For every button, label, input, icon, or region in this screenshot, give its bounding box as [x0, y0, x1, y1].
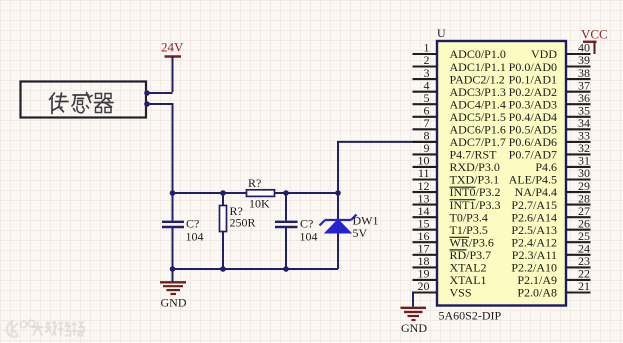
svg-text:VCC: VCC [581, 27, 608, 42]
wire: R2 250R bottom lead [222, 232, 224, 270]
svg-text:GND: GND [401, 321, 427, 335]
svg-text:21: 21 [578, 279, 590, 293]
wire: top bus left of R 10K [173, 192, 247, 194]
wire: zener node up and across to IC pin 8 [338, 142, 437, 219]
svg-text:24V: 24V [161, 40, 184, 55]
pin 17 name RD/P3.7 / pin 24 name P2.3/A11 [450, 248, 558, 262]
pin 35 stub (right) [566, 104, 591, 118]
wire: left rail below C1 to ground bus [172, 228, 174, 269]
wire: top bus right of R 10K [275, 192, 339, 194]
pin 2 stub (left) [413, 53, 438, 67]
pin 8 name ADC7/P1.7 / pin 33 name P0.6/AD6 [450, 135, 558, 149]
pin 14 name T0/P3.4 / pin 27 name P2.6/A14 [450, 210, 558, 224]
capacitor C? 104 (right) [275, 217, 318, 244]
svg-text:104: 104 [186, 230, 204, 244]
pin 38 stub (right) [566, 66, 591, 80]
wire: R2 250R top lead [222, 193, 224, 206]
watermark text 大数跨境 (approx strokes) [32, 321, 84, 335]
wire: C2 bottom lead [285, 228, 287, 269]
IC U1 5A60S2-DIP body [437, 41, 566, 306]
pin 7 stub (left) [413, 116, 438, 130]
pin 23 stub (right) [566, 254, 591, 268]
pin 29 stub (right) [566, 179, 591, 193]
pin 15 stub (left) [413, 216, 438, 230]
pin 7 name ADC6/P1.6 / pin 34 name P0.5/AD5 [450, 123, 558, 137]
resistor R? 10K (horizontal) [247, 176, 275, 211]
pin 14 stub (left) [413, 204, 438, 218]
ground symbol (left) [160, 269, 187, 310]
pin 9 name P4.7/RST / pin 32 name P0.7/AD7 [450, 148, 558, 162]
resistor R? 250R (vertical) [220, 204, 256, 232]
pin 5 name ADC4/P1.4 / pin 36 name P0.3/AD3 [450, 97, 558, 111]
svg-text:5A60S2-DIP: 5A60S2-DIP [439, 309, 502, 323]
svg-text:C?: C? [186, 217, 199, 231]
wire: box upper stub to 24V riser [147, 92, 173, 94]
svg-text:P2.0/A8: P2.0/A8 [517, 286, 557, 300]
svg-text:R?: R? [248, 176, 261, 190]
wire: box lower stub then down left rail [147, 104, 173, 221]
power port VCC [581, 27, 608, 55]
pin 34 stub (right) [566, 116, 591, 130]
pin 11 stub (left) [413, 166, 438, 180]
ground symbol (under IC pin 20) [401, 308, 428, 335]
pin 21 stub (right) [566, 279, 591, 293]
pin 10 name RXD/P3.0 / pin 31 name P4.6 [450, 160, 558, 174]
pin 13 name INT1/P3.3 / pin 28 name P2.7/A15 [450, 198, 558, 212]
pin 31 stub (right) [566, 154, 591, 168]
wire: C2 top lead [285, 193, 287, 221]
pin 13 stub (left) [413, 191, 438, 205]
watermark logo [7, 320, 35, 336]
IC part label 5A60S2-DIP [439, 309, 502, 323]
pin 3 name PADC2/1.2 / pin 38 name P0.1/AD1 [450, 72, 558, 86]
pin 16 stub (left) [413, 229, 438, 243]
pin 18 stub (left) [413, 254, 438, 268]
pin 6 stub (left) [413, 104, 438, 118]
pin 19 stub (left) [413, 267, 438, 281]
capacitor C? 104 (left) [162, 217, 204, 244]
wire: IC pin 20 down to ground [413, 293, 437, 307]
pin 10 stub (left) [413, 154, 438, 168]
pin 17 stub (left) [413, 242, 438, 256]
pin 12 name INT0/P3.2 / pin 29 name NA/P4.4 [450, 185, 558, 199]
pin 22 stub (right) [566, 267, 591, 281]
pin 11 name TXD/P3.1 / pin 30 name ALE/P4.5 [450, 173, 558, 187]
pin 26 stub (right) [566, 216, 591, 230]
pin 4 name ADC3/P1.3 / pin 37 name P0.2/AD2 [450, 85, 558, 99]
pin 37 stub (right) [566, 78, 591, 92]
pin 32 stub (right) [566, 141, 591, 155]
pin 15 name T1/P3.5 / pin 26 name P2.5/A13 [450, 223, 558, 237]
pin 40 stub (right) [566, 41, 591, 55]
svg-text:20: 20 [418, 279, 430, 293]
IC designator U [437, 26, 446, 40]
svg-text:250R: 250R [230, 216, 256, 230]
junction node dots [144, 90, 341, 272]
pin 5 stub (left) [413, 91, 438, 105]
pin 16 name WR/P3.6 / pin 25 name P2.4/A12 [450, 235, 558, 249]
pin 20 name VSS / pin 21 name P2.0/A8 [450, 286, 558, 300]
pin 19 name XTAL1 / pin 22 name P2.1/A9 [450, 273, 558, 287]
pin 3 stub (left) [413, 66, 438, 80]
svg-text:5V: 5V [353, 226, 368, 240]
svg-text:C?: C? [300, 217, 313, 231]
pin 18 name XTAL2 / pin 23 name P2.2/A10 [450, 261, 558, 275]
pin 36 stub (right) [566, 91, 591, 105]
pin 9 stub (left) [413, 141, 438, 155]
svg-text:104: 104 [300, 230, 318, 244]
pin 25 stub (right) [566, 229, 591, 243]
pin 1 name ADC0/P1.0 / pin 40 name VDD [450, 47, 558, 61]
pin 39 stub (right) [566, 53, 591, 67]
wire: bottom ground bus [173, 268, 339, 270]
pin 1 stub (left) [413, 41, 438, 55]
svg-text:GND: GND [161, 296, 187, 310]
zener diode DW1 5V [320, 214, 379, 241]
svg-text:10K: 10K [249, 197, 270, 211]
power port 24V [161, 40, 184, 93]
pin 4 stub (left) [413, 78, 438, 92]
pin 8 stub (left) [413, 129, 438, 143]
sensor box 传感器 [21, 82, 147, 118]
pin 24 stub (right) [566, 242, 591, 256]
pin 30 stub (right) [566, 166, 591, 180]
pin 2 name ADC1/P1.1 / pin 39 name P0.0/AD0 [450, 60, 558, 74]
svg-text:U: U [437, 26, 446, 40]
pin 20 stub (left) [413, 279, 438, 293]
svg-text:VSS: VSS [450, 286, 472, 300]
pin 28 stub (right) [566, 191, 591, 205]
pin 6 name ADC5/P1.5 / pin 35 name P0.4/AD4 [450, 110, 558, 124]
pin 27 stub (right) [566, 204, 591, 218]
wire: zener anode down to ground bus [337, 233, 339, 269]
pin 12 stub (left) [413, 179, 438, 193]
pin 33 stub (right) [566, 129, 591, 143]
